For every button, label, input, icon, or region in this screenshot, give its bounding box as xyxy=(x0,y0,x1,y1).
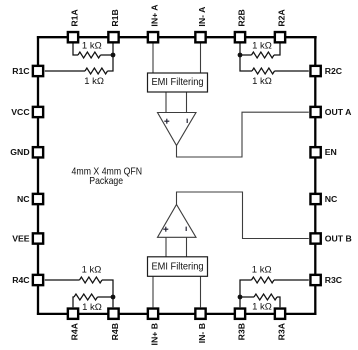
svg-text:R1B: R1B xyxy=(110,9,120,26)
svg-text:1 kΩ: 1 kΩ xyxy=(84,76,104,87)
svg-text:R4B: R4B xyxy=(110,323,120,340)
svg-text:OUT A: OUT A xyxy=(325,107,352,117)
svg-text:EMI Filtering: EMI Filtering xyxy=(152,261,204,273)
svg-text:NC: NC xyxy=(17,194,30,204)
svg-text:R3B: R3B xyxy=(236,323,246,340)
svg-text:1 kΩ: 1 kΩ xyxy=(252,41,272,52)
svg-text:R1A: R1A xyxy=(69,8,79,26)
svg-text:IN+ B: IN+ B xyxy=(149,323,159,345)
svg-text:Package: Package xyxy=(89,175,123,187)
svg-text:EN: EN xyxy=(325,147,337,157)
svg-text:R2A: R2A xyxy=(276,8,286,26)
svg-text:R1C: R1C xyxy=(12,66,30,76)
svg-text:1 kΩ: 1 kΩ xyxy=(252,76,272,87)
svg-text:1 kΩ: 1 kΩ xyxy=(252,265,272,276)
svg-text:R2C: R2C xyxy=(325,66,343,76)
svg-text:R4A: R4A xyxy=(69,322,79,340)
svg-text:NC: NC xyxy=(325,194,338,204)
svg-text:1 kΩ: 1 kΩ xyxy=(82,265,102,276)
svg-text:R4C: R4C xyxy=(12,275,30,285)
svg-text:R2B: R2B xyxy=(236,9,246,26)
svg-text:GND: GND xyxy=(10,147,29,157)
svg-text:1 kΩ: 1 kΩ xyxy=(82,302,102,313)
svg-text:VCC: VCC xyxy=(11,107,30,117)
svg-text:R3C: R3C xyxy=(325,275,343,285)
svg-text:1 kΩ: 1 kΩ xyxy=(252,302,272,313)
svg-text:IN- B: IN- B xyxy=(197,323,207,343)
svg-text:OUT B: OUT B xyxy=(325,233,352,243)
svg-text:VEE: VEE xyxy=(12,233,30,243)
svg-text:IN- A: IN- A xyxy=(197,6,207,27)
svg-text:1 kΩ: 1 kΩ xyxy=(82,41,102,52)
svg-text:IN+ A: IN+ A xyxy=(149,4,159,27)
svg-text:R3A: R3A xyxy=(276,322,286,340)
svg-text:EMI Filtering: EMI Filtering xyxy=(152,76,204,88)
